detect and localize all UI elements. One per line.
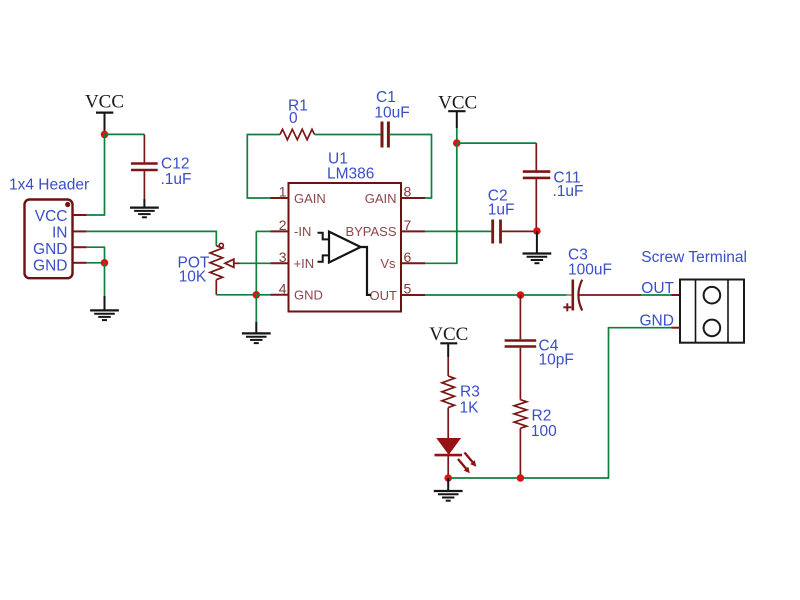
svg-text:BYPASS: BYPASS [345, 224, 396, 239]
wire C1 to pin8 [390, 135, 432, 199]
wire VCC node right to C11 [457, 142, 537, 144]
pin 8 GAIN stub [401, 197, 425, 199]
junction node VCC/C12/header [101, 131, 109, 139]
svg-text:GAIN: GAIN [365, 191, 397, 206]
svg-text:GAIN: GAIN [294, 191, 326, 206]
svg-text:2: 2 [279, 217, 287, 233]
wire junction down to ground [255, 295, 257, 322]
svg-text:10pF: 10pF [539, 352, 574, 369]
svg-text:C12: C12 [161, 156, 189, 173]
svg-text:3: 3 [279, 249, 287, 265]
connector J1 1x4 Header [9, 177, 89, 279]
svg-text:VCC: VCC [85, 92, 124, 113]
svg-text:GND: GND [33, 241, 67, 258]
svg-text:OUT: OUT [641, 280, 674, 297]
junction node C2/C11/ground [533, 227, 541, 235]
svg-text:1x4 Header: 1x4 Header [9, 177, 89, 194]
wire pot bottom to junction [216, 294, 256, 296]
svg-text:VCC: VCC [429, 324, 468, 345]
wire stub into terminal OUT [672, 294, 681, 296]
potentiometer POT 10K [178, 243, 240, 295]
svg-text:10uF: 10uF [374, 105, 409, 122]
ground below C12 [130, 199, 159, 217]
wire header GND1 to junction [87, 247, 105, 263]
junction node LED/bottom rail [444, 474, 452, 482]
wire junction to pin4 [256, 294, 270, 296]
wire header IN to potentiometer top [87, 231, 217, 245]
pin 6 Vs stub [401, 262, 425, 264]
wire VCC node down to header VCC pin [87, 134, 105, 215]
wire top loop left: pin1 up to R1 [247, 135, 280, 199]
svg-text:R2: R2 [532, 407, 552, 424]
wire pin5 OUT to C3 [425, 294, 567, 296]
pin 4 GND stub [271, 294, 289, 296]
svg-text:IN: IN [52, 225, 68, 242]
ground below C2/C11 junction [523, 231, 552, 263]
wire header GND2 to junction [87, 262, 105, 264]
wire C3 to screw terminal OUT [641, 294, 672, 296]
wire VCC to R3 [447, 357, 449, 376]
svg-text:6: 6 [404, 249, 412, 265]
pin 5 OUT stub [401, 294, 425, 296]
IC U1 LM386 [289, 151, 402, 312]
capacitor C1 10uF [374, 89, 409, 148]
svg-text:8: 8 [404, 184, 412, 200]
svg-text:VCC: VCC [35, 208, 68, 225]
svg-text:R3: R3 [460, 384, 480, 401]
power flag VCC center [438, 93, 477, 144]
svg-text:1uF: 1uF [488, 201, 515, 218]
pin name labels [294, 191, 398, 303]
svg-text:5: 5 [404, 280, 412, 296]
capacitor C4 10pF [505, 338, 574, 400]
wire -IN down to ground junction [255, 231, 257, 294]
junction node VCC center [453, 139, 461, 147]
pin 7 BYPASS stub [401, 230, 425, 232]
svg-text:OUT: OUT [370, 288, 398, 303]
wire pin7 BYPASS to C2 [425, 230, 491, 232]
op-amp symbol inside U1 [318, 232, 372, 295]
wire R1 to C1 [315, 134, 381, 136]
svg-text:.1uF: .1uF [161, 171, 192, 188]
svg-text:100: 100 [531, 423, 557, 440]
svg-text:Vs: Vs [380, 256, 396, 271]
wire VCC node down to pin6 Vs [425, 143, 457, 263]
pin numbers [279, 184, 412, 297]
svg-text:1: 1 [279, 184, 287, 200]
svg-text:4: 4 [279, 280, 287, 296]
wire stub into terminal GND [672, 327, 681, 329]
wire terminal GND down to bottom rail [448, 328, 671, 478]
wire from VCC node to C12 [105, 133, 145, 135]
resistor R3 1K [442, 376, 480, 416]
svg-text:1K: 1K [460, 399, 480, 416]
svg-text:Screw Terminal: Screw Terminal [641, 249, 747, 266]
svg-text:GND: GND [294, 288, 323, 303]
resistor R1 0 [280, 98, 315, 140]
svg-text:-IN: -IN [294, 224, 311, 239]
svg-text:+IN: +IN [294, 256, 315, 271]
junction node OUT/C4 [517, 291, 525, 299]
screw terminal J2 [641, 249, 747, 343]
svg-text:100uF: 100uF [568, 261, 612, 278]
svg-text:10K: 10K [179, 269, 207, 286]
svg-text:GND: GND [33, 258, 67, 275]
wire junction down to ground [104, 263, 106, 296]
svg-text:0: 0 [289, 110, 298, 127]
svg-text:.1uF: .1uF [553, 183, 584, 200]
power flag VCC top-left [85, 92, 124, 135]
wire -IN to pin2 [256, 230, 270, 232]
capacitor C12 .1uF [131, 134, 192, 199]
ground below header [90, 296, 119, 320]
svg-text:C1: C1 [376, 89, 396, 106]
ground below potentiometer [242, 322, 271, 343]
svg-text:7: 7 [404, 217, 412, 233]
capacitor C2 1uF [488, 187, 537, 243]
power flag VCC bottom [429, 324, 468, 357]
pin 1 GAIN stub [271, 197, 289, 199]
capacitor C3 100uF polarized [563, 247, 641, 312]
svg-text:LM386: LM386 [327, 166, 374, 183]
capacitor C11 .1uF [523, 143, 584, 231]
LED D1 [435, 408, 477, 478]
junction node header grounds [101, 259, 109, 267]
junction node pot/pin4/gnd [252, 291, 260, 299]
resistor R2 100 [514, 400, 557, 478]
pin 3 +IN stub [271, 262, 289, 264]
pin 2 -IN stub [271, 230, 289, 232]
junction node R2/bottom rail [517, 474, 525, 482]
wire pot wiper to pin3 [240, 262, 271, 264]
ground below LED [434, 478, 463, 501]
wire OUT junction down to C4 [519, 295, 521, 339]
